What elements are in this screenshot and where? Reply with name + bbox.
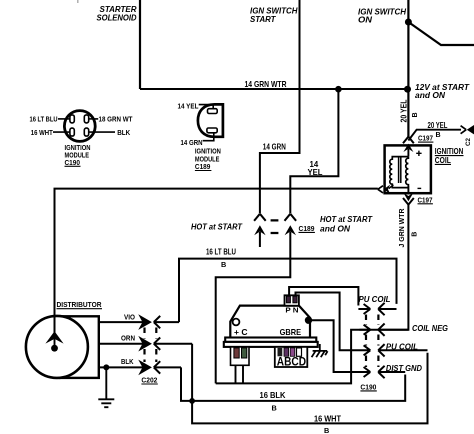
module ABCD connector box <box>275 347 308 367</box>
svg-text:18 GRN WT: 18 GRN WT <box>99 114 133 123</box>
leader 16 LT BLU <box>58 118 70 120</box>
wire into distributor <box>54 315 56 334</box>
svg-text:B: B <box>221 260 226 269</box>
pin +C green <box>242 348 247 358</box>
svg-text:B: B <box>410 232 418 237</box>
connector C189 interface dashes <box>271 220 279 233</box>
svg-text:C197: C197 <box>418 195 433 204</box>
pin C190 top-right <box>84 115 88 123</box>
wire ground tab to C190 row4 <box>309 320 360 372</box>
wire HOT at START bus <box>55 189 378 334</box>
pin D <box>297 348 302 356</box>
coil primary winding <box>406 156 409 186</box>
connector C190 interface dashes <box>366 315 378 368</box>
svg-text:16 BLK: 16 BLK <box>260 391 286 400</box>
svg-text:ORN: ORN <box>121 334 135 343</box>
node junction BLK to ground <box>103 364 109 370</box>
coil secondary winding <box>390 157 409 188</box>
connector C197 bottom female half <box>403 198 414 205</box>
wire +C pin leads <box>236 358 244 383</box>
svg-text:C190: C190 <box>65 158 81 167</box>
module +C connector box <box>231 347 250 365</box>
leader 16 WHT <box>53 131 70 133</box>
wire VIO <box>99 321 142 323</box>
node junction ORN drop over 16 BLK <box>189 398 195 404</box>
svg-text:16 LT BLU: 16 LT BLU <box>206 247 236 256</box>
svg-text:DIST GND: DIST GND <box>386 363 422 373</box>
connector C189 inline, left pair male arrow <box>254 225 265 235</box>
svg-text:J GRN WTR: J GRN WTR <box>397 208 406 247</box>
svg-text:and ON: and ON <box>320 224 351 234</box>
wire IGN SWITCH ON / 20 YEL <box>407 0 409 137</box>
connector C189 inline, right pair female half <box>285 214 297 221</box>
svg-text:B: B <box>272 404 277 413</box>
wire stub below C189 left <box>259 232 261 247</box>
connector C190 row2 female half <box>378 324 408 336</box>
wire P to C190 row1 <box>289 287 358 306</box>
coil plus sign <box>416 151 421 156</box>
coil minus sign <box>418 187 422 189</box>
module base plate upper bar <box>225 338 316 342</box>
svg-text:PU COIL: PU COIL <box>359 294 391 304</box>
module U1 body (HEI module trapezoid) <box>230 306 310 338</box>
svg-text:20 YEL: 20 YEL <box>428 121 448 130</box>
svg-text:14 GRN: 14 GRN <box>263 143 286 152</box>
svg-text:HOT at START: HOT at START <box>320 214 373 224</box>
node junction at 14 GRN WTR / ign sw on <box>404 86 411 93</box>
connector C189 inline, left pair female half <box>254 214 266 221</box>
svg-text:C202: C202 <box>141 376 157 385</box>
module base plate lower bar <box>224 342 318 347</box>
svg-text:B: B <box>436 131 441 139</box>
connector C202 row1 male arrow <box>141 317 150 327</box>
svg-text:C189: C189 <box>299 224 315 233</box>
svg-text:COIL: COIL <box>435 156 451 165</box>
svg-text:16 WHT: 16 WHT <box>314 415 341 424</box>
connector C189 D-shell (ignition module) <box>198 104 223 136</box>
svg-text:B: B <box>324 426 329 434</box>
svg-text:SOLENOID: SOLENOID <box>97 13 137 23</box>
ground (earth) below distributor <box>98 367 114 407</box>
svg-text:B: B <box>411 112 419 117</box>
svg-text:BLK: BLK <box>121 357 134 366</box>
svg-text:C197: C197 <box>418 134 433 143</box>
wire 16 LT BLU <box>179 259 397 323</box>
connector C202 row3 male arrow <box>141 362 150 372</box>
wire 20 YEL branch to right edge connector <box>408 130 461 141</box>
svg-text:14 GRN WTR: 14 GRN WTR <box>245 80 287 89</box>
svg-text:DISTRIBUTOR: DISTRIBUTOR <box>57 300 102 309</box>
connector C190 row4 male arrow <box>360 367 371 377</box>
wire 14 GRN WTR bus (box bottom edge) <box>140 88 408 90</box>
pin +C maroon <box>234 348 239 358</box>
pin N <box>293 296 297 303</box>
pin C190 bottom-left <box>70 128 74 136</box>
connector C189 inline, right pair male arrow <box>285 225 296 235</box>
node junction 14 YEL branch <box>335 86 342 93</box>
svg-text:ON: ON <box>358 15 373 25</box>
leader 18 GRN WT <box>89 118 99 120</box>
pin C189 top <box>208 109 218 114</box>
svg-text:COIL NEG: COIL NEG <box>412 323 448 333</box>
svg-text:C190: C190 <box>360 382 376 391</box>
connector C202 row2 male arrow <box>141 339 150 349</box>
leader BLK <box>89 131 115 133</box>
connector C190 round (ignition module) <box>64 111 95 142</box>
svg-text:C2: C2 <box>465 137 472 146</box>
connector C202 row3 female half <box>154 361 181 373</box>
svg-text:PU COIL: PU COIL <box>386 342 418 352</box>
svg-text:20 YEL: 20 YEL <box>400 99 409 122</box>
svg-text:START: START <box>250 14 276 24</box>
wire +C bus to coil neg <box>216 330 360 384</box>
module P/N terminal block <box>285 295 299 305</box>
coil internal tap diagonal <box>389 185 394 189</box>
leader 14 GRN <box>203 133 214 141</box>
wire J GRN WTR to C190 row2 <box>360 204 409 330</box>
wire diagonal to right edge <box>408 22 474 45</box>
connector half (male) at right edge <box>467 125 474 134</box>
pin C190 bottom-right <box>84 128 88 136</box>
pin B <box>284 348 289 356</box>
ignition coil box <box>385 145 431 193</box>
wire ORN <box>99 343 142 345</box>
tick at top edge <box>77 0 79 3</box>
connector C190 row1 male arrow <box>358 304 370 314</box>
wire 14 YEL <box>290 89 338 213</box>
svg-text:+ C: + C <box>234 328 248 337</box>
module ground symbol <box>312 344 328 357</box>
wire 16 BLK bus <box>181 367 405 401</box>
connector C190 row2 male arrow <box>360 325 371 335</box>
wire 14 YEL from C189 to module <box>216 232 291 384</box>
connector C197 top male arrow (from coil) <box>403 144 413 152</box>
svg-text:14 YEL: 14 YEL <box>178 102 199 111</box>
svg-text:14 GRN: 14 GRN <box>181 138 203 147</box>
wire IGN SWITCH START <box>260 0 300 213</box>
module ground tab dot <box>305 317 312 324</box>
svg-text:16 WHT: 16 WHT <box>31 128 53 137</box>
svg-text:C189: C189 <box>195 162 211 171</box>
distributor rotor arrow <box>45 331 63 343</box>
pin A <box>278 348 283 356</box>
connector C190 row3 female half <box>378 344 427 356</box>
svg-text:P N: P N <box>285 306 298 315</box>
svg-text:VIO: VIO <box>124 313 135 322</box>
wire N to C190 row3 <box>296 293 360 351</box>
pin C189 bottom <box>207 128 217 133</box>
connector C197 bottom male arrow (from coil) <box>407 186 409 195</box>
starter solenoid box (left edge) <box>139 0 141 89</box>
connector C202 interface dashes <box>145 328 157 363</box>
svg-text:BLK: BLK <box>117 128 130 137</box>
distributor housing rect <box>60 316 99 378</box>
distributor rotor dot <box>51 345 58 352</box>
wire 16 WHT bus <box>192 344 427 424</box>
svg-text:16 LT BLU: 16 LT BLU <box>30 114 58 123</box>
svg-text:GBRE: GBRE <box>280 328 302 337</box>
leader 14 YEL <box>199 105 214 109</box>
connector at coil left: female half on HOT wire <box>378 186 383 193</box>
node junction 12V feed <box>405 19 412 26</box>
distributor body circle <box>26 316 88 378</box>
svg-text:IGNITION: IGNITION <box>435 147 464 156</box>
pin P <box>286 296 290 303</box>
coil core lines <box>399 158 401 184</box>
connector half (female) at right edge <box>461 126 467 134</box>
svg-text:ABCD: ABCD <box>277 354 306 368</box>
connector C202 row2 female half <box>154 338 192 350</box>
connector C190 row3 male arrow <box>360 345 371 355</box>
connector C197 top female half <box>403 137 414 144</box>
wire BLK <box>99 366 142 368</box>
pin C <box>290 348 295 356</box>
svg-text:YEL: YEL <box>308 168 323 177</box>
connector C190 row4 female half <box>378 366 405 378</box>
pin C190 top-left <box>70 115 74 123</box>
connector C202 row1 female half <box>154 316 179 328</box>
connector C190 row1 female half <box>378 303 396 315</box>
svg-text:and ON: and ON <box>415 90 446 100</box>
svg-text:HOT at START: HOT at START <box>191 221 243 231</box>
connector at coil left: male arrow from coil <box>384 185 391 194</box>
module mounting hole <box>233 319 240 326</box>
